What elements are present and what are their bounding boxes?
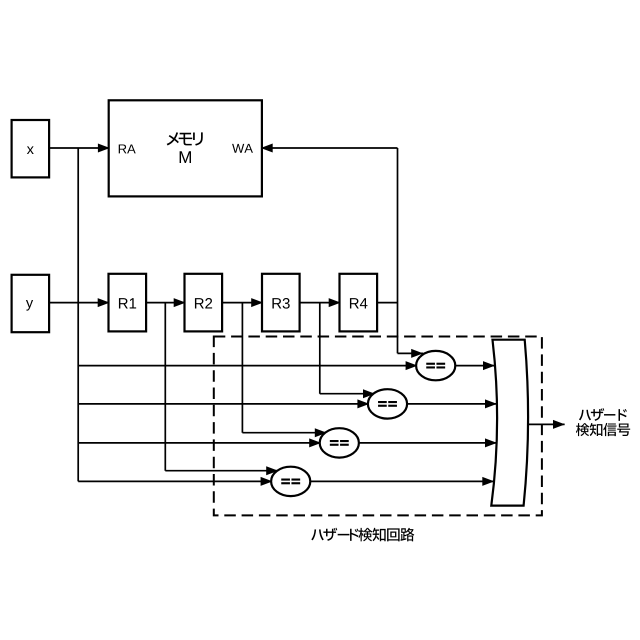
wire x compare input 4	[78, 365, 416, 367]
wire R2 compare input	[242, 432, 326, 434]
wire R1 to R2	[146, 302, 184, 304]
arrow into WA	[261, 144, 273, 153]
wire feedback vertical	[397, 148, 399, 353]
arrow hazard output	[553, 420, 565, 429]
arrow comparator 1 upper input	[411, 349, 423, 358]
comparator 2	[368, 389, 407, 418]
arrow comparator 1 lower input	[406, 361, 418, 370]
arrow OR input 4	[482, 477, 494, 486]
wire feedback to memory WA	[262, 147, 398, 149]
arrow comparator 3 upper input	[315, 428, 327, 437]
arrow into R4	[329, 298, 341, 307]
label == comparator 3	[330, 440, 339, 442]
wire R2 branch vertical	[241, 303, 243, 433]
wire x trunk vertical	[77, 148, 79, 481]
wire x to memory RA	[49, 147, 109, 149]
arrow into R2	[174, 298, 186, 307]
label == comparator 2	[378, 401, 387, 403]
arrow comparator 4 upper input	[266, 466, 278, 475]
memory M	[109, 100, 262, 196]
block y	[12, 275, 50, 332]
wire comparator 4 output	[310, 480, 494, 482]
wire comparator 2 output	[407, 403, 497, 405]
arrow into R1	[98, 298, 110, 307]
wire R3 compare input	[320, 393, 375, 395]
label hazard detection circuit ハザード検知回路	[311, 528, 414, 542]
OR gate	[491, 340, 528, 506]
label memory メモリ	[167, 132, 203, 145]
arrow into R3	[251, 298, 263, 307]
register R4	[340, 274, 378, 332]
label == comparator 1	[426, 363, 435, 365]
wire x compare input 1	[78, 480, 271, 482]
label RA	[119, 144, 136, 153]
wire R1 compare input	[165, 470, 278, 472]
wire y to R1	[49, 302, 108, 304]
block x	[12, 120, 50, 177]
label R4	[350, 298, 368, 308]
arrow comparator 4 lower input	[261, 477, 273, 486]
wire hazard output	[527, 423, 565, 425]
arrow comparator 2 lower input	[357, 399, 369, 408]
arrow into RA	[98, 144, 110, 153]
label y	[26, 300, 33, 311]
label x	[27, 146, 34, 154]
wire comparator 3 output	[359, 442, 497, 444]
comparator 1	[416, 351, 455, 380]
wire R2 to R3	[222, 302, 262, 304]
arrow comparator 2 upper input	[363, 389, 375, 398]
arrow OR input 3	[485, 438, 497, 447]
label M	[180, 151, 191, 163]
wire R4 output	[377, 302, 397, 304]
arrow comparator 3 lower input	[309, 438, 321, 447]
label R1	[119, 298, 136, 308]
label WA	[232, 144, 253, 153]
wire R1 branch vertical	[164, 303, 166, 471]
register R2	[185, 274, 223, 332]
wire R3 branch vertical	[319, 303, 321, 394]
wire comparator 1 output	[455, 365, 495, 367]
arrow OR input 2	[485, 399, 497, 408]
comparator 3	[320, 428, 359, 457]
label R2	[195, 298, 212, 308]
register R1	[109, 274, 147, 332]
arrow OR input 1	[483, 361, 495, 370]
label hazard signal line2 検知信号	[576, 423, 630, 436]
wire R4 compare input	[398, 352, 424, 354]
wire x compare input 3	[78, 403, 368, 405]
hazard detection circuit dashed box	[214, 337, 542, 516]
register R3	[262, 274, 300, 332]
label == comparator 4	[281, 479, 290, 481]
label hazard signal line1 ハザード	[579, 408, 627, 421]
wire x compare input 2	[78, 442, 320, 444]
comparator 4	[271, 467, 310, 496]
wire R3 to R4	[300, 302, 340, 304]
label R3	[272, 298, 289, 309]
